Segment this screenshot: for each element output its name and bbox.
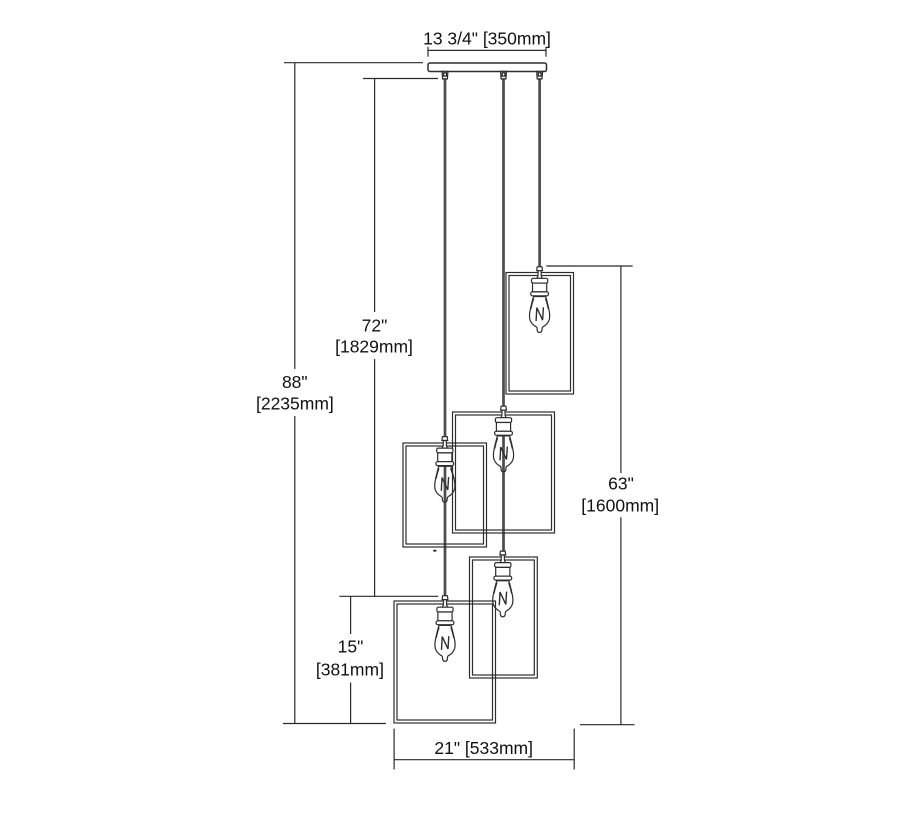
cord B	[502, 79, 505, 553]
svg-text:[381mm]: [381mm]	[316, 660, 384, 680]
shade frame 4	[470, 557, 538, 678]
svg-text:21" [533mm]: 21" [533mm]	[434, 738, 533, 758]
svg-text:[2235mm]: [2235mm]	[256, 394, 334, 414]
dimension 63" [1600mm]	[620, 266, 622, 725]
stray ink dot below frame 3	[433, 550, 436, 552]
bulb 2	[493, 406, 513, 472]
svg-text:63": 63"	[608, 474, 634, 494]
cord A	[444, 79, 447, 597]
extension line 15 top	[339, 595, 438, 597]
dimension 72" [1829mm]	[374, 79, 376, 597]
bulb 3	[435, 437, 455, 503]
svg-text:72": 72"	[362, 315, 388, 335]
svg-text:[1829mm]: [1829mm]	[335, 337, 413, 357]
shade frame 2	[453, 412, 555, 533]
svg-text:[1600mm]: [1600mm]	[581, 496, 659, 516]
dimension 88" [2235mm]	[294, 63, 296, 724]
bulb 4	[493, 551, 513, 617]
extension line 63 top	[546, 265, 632, 267]
dimension 15" [381mm]	[350, 596, 352, 723]
svg-text:15": 15"	[338, 636, 364, 656]
bulb 1	[530, 267, 550, 333]
svg-text:88": 88"	[282, 372, 308, 392]
shade frame 5	[394, 601, 496, 723]
extension line 63 bottom	[580, 724, 635, 726]
canopy fitting 3	[537, 71, 543, 79]
cord C	[538, 79, 541, 268]
extension line bottom left	[283, 723, 386, 725]
extension line 72 top	[363, 78, 438, 80]
canopy fitting 1	[442, 71, 448, 79]
dimension 21" [533mm] bottom	[394, 729, 574, 770]
shade frame 1	[506, 273, 574, 395]
shade frame 3	[403, 443, 487, 547]
canopy fitting 2	[501, 71, 507, 79]
canopy	[428, 63, 547, 72]
extension line 88 top	[284, 62, 423, 64]
svg-text:13 3/4" [350mm]: 13 3/4" [350mm]	[423, 29, 551, 49]
bulb 5	[435, 596, 455, 662]
dimension 13 3/4" [350mm] top	[428, 47, 546, 57]
